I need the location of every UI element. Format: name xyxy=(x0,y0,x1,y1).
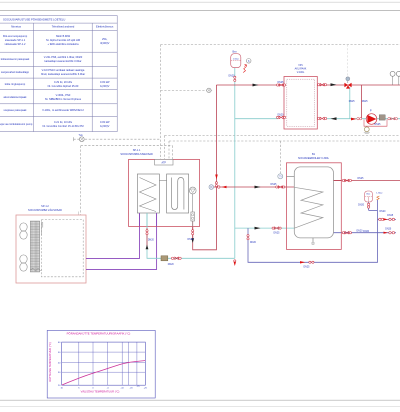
svg-text:3(400)V: 3(400)V xyxy=(100,41,109,45)
svg-text:0.29 l/s; 20 kPa: 0.29 l/s; 20 kPa xyxy=(54,80,72,84)
svg-text:SOOJAVEEBOILER V-300L: SOOJAVEEBOILER V-300L xyxy=(298,157,330,160)
svg-text:Nt. Alpha Fenniks L8 split HM: Nt. Alpha Fenniks L8 split HM xyxy=(46,38,80,42)
svg-text:sooja vee tsirkulatsiooni pump: sooja vee tsirkulatsiooni pump xyxy=(0,122,33,126)
svg-text:kütte ringluspump: kütte ringluspump xyxy=(5,82,26,86)
svg-text:1(230)V: 1(230)V xyxy=(100,124,109,128)
svg-text:kaitseklapi avanemisrõhk 3.0ba: kaitseklapi avanemisrõhk 3.0bar xyxy=(44,59,81,63)
svg-text:Nt. NIBE/BIOm Vemat Orpheus: Nt. NIBE/BIOm Vemat Orpheus xyxy=(45,97,82,101)
svg-text:küttesüsteemi paisupaak: küttesüsteemi paisupaak xyxy=(1,57,30,61)
svg-text:DN20: DN20 xyxy=(385,229,392,231)
svg-text:V-300L, PN3: V-300L, PN3 xyxy=(56,93,71,97)
svg-text:0.03 kW: 0.03 kW xyxy=(100,80,110,84)
svg-text:ATP: ATP xyxy=(162,162,167,165)
svg-text:DN25: DN25 xyxy=(375,124,382,126)
svg-text:akumulatsioonipaak: akumulatsioonipaak xyxy=(4,95,28,99)
svg-text:Bex: Bex xyxy=(233,51,238,54)
svg-text:DN25: DN25 xyxy=(274,233,281,235)
svg-text:-21: -21 xyxy=(136,386,140,388)
svg-text:DN20: DN20 xyxy=(250,242,257,244)
svg-text:60: 60 xyxy=(58,342,61,344)
svg-text:KÜTTEVEE TEMPERATUUR (°C): KÜTTEVEE TEMPERATUUR (°C) xyxy=(48,342,52,381)
svg-text:DN20: DN20 xyxy=(380,211,387,213)
svg-text:TI: TI xyxy=(279,175,281,178)
svg-text:DN20: DN20 xyxy=(188,239,195,241)
svg-text:Tehnilised andmed: Tehnilised andmed xyxy=(52,25,75,29)
svg-text:DN20: DN20 xyxy=(357,230,364,232)
svg-text:-5: -5 xyxy=(107,388,110,390)
svg-text:Bex: Bex xyxy=(367,194,372,196)
svg-text:V-100L: V-100L xyxy=(297,71,305,74)
svg-text:Nimetus: Nimetus xyxy=(11,25,22,29)
svg-text:DN25: DN25 xyxy=(349,101,356,103)
svg-text:B1: B1 xyxy=(312,153,316,156)
svg-text:soojusvaheti kaitseklapp: soojusvaheti kaitseklapp xyxy=(1,70,30,74)
svg-text:V-20L PN6, eelrõhk 1.0bar, DN2: V-20L PN6, eelrõhk 1.0bar, DN20 xyxy=(44,55,83,59)
svg-text:SP-1.1: SP-1.1 xyxy=(133,149,141,152)
svg-text:SOOJUSPUMBA SISEOSAD: SOOJUSPUMBA SISEOSAD xyxy=(120,153,153,156)
svg-text:Elektrivõimsus: Elektrivõimsus xyxy=(96,25,114,29)
svg-text:õhuti, kaitseklapi avanemisrõh: õhuti, kaitseklapi avanemisrõhk 6.0bar xyxy=(41,72,85,76)
svg-text:Nküt=5.9kW: Nküt=5.9kW xyxy=(56,34,71,38)
svg-text:-20: -20 xyxy=(129,388,133,390)
svg-text:DN25: DN25 xyxy=(358,178,365,180)
svg-text:50: 50 xyxy=(58,352,61,354)
svg-text:PÕRANDAKÜTTE TEMPERATUURIGRAAF: PÕRANDAKÜTTE TEMPERATUURIGRAAFIK (°C) xyxy=(67,331,131,336)
svg-text:+ 9kW elektriline küttekeha: + 9kW elektriline küttekeha xyxy=(47,42,79,46)
svg-text:DN15: DN15 xyxy=(387,215,394,217)
svg-text:Nt. Grundfos Alpha2 25-60: Nt. Grundfos Alpha2 25-60 xyxy=(48,84,79,88)
svg-text:DN20: DN20 xyxy=(168,264,175,266)
svg-text:AKU.PAAK: AKU.PAAK xyxy=(295,68,307,71)
svg-text:1(230)V: 1(230)V xyxy=(100,84,109,88)
svg-text:soojavee paisupaak: soojavee paisupaak xyxy=(4,108,28,112)
svg-text:0.21 l/s; 10 kPa: 0.21 l/s; 10 kPa xyxy=(54,120,72,124)
svg-text:SP-1.2: SP-1.2 xyxy=(41,205,49,208)
svg-text:40: 40 xyxy=(58,362,61,364)
svg-text:1.5bar: 1.5bar xyxy=(233,57,239,60)
svg-text:DN25: DN25 xyxy=(271,184,278,186)
svg-text:õhk-vesi soojuspump: õhk-vesi soojuspump xyxy=(3,34,28,38)
svg-text:SOOJUSPUMBA VÄLISOSAD: SOOJUSPUMBA VÄLISOSAD xyxy=(28,209,62,212)
svg-text:Tvä: Tvä xyxy=(79,134,84,137)
svg-text:DN20: DN20 xyxy=(148,240,155,242)
svg-text:1.5bar: 1.5bar xyxy=(376,192,382,195)
svg-text:0: 0 xyxy=(92,388,94,390)
svg-text:0.03 kW: 0.03 kW xyxy=(100,120,110,124)
svg-text:-10: -10 xyxy=(121,388,125,390)
svg-text:DN20: DN20 xyxy=(363,231,370,233)
svg-text:30: 30 xyxy=(58,372,61,374)
svg-text:DN20: DN20 xyxy=(229,76,236,78)
svg-text:DN25: DN25 xyxy=(304,267,311,269)
svg-text:-25: -25 xyxy=(144,388,148,390)
svg-text:VP1: VP1 xyxy=(298,64,303,67)
svg-text:V-100L, nt eelrõhuvede WRS/OE3: V-100L, nt eelrõhuvede WRS/OE3.2 xyxy=(42,108,84,112)
svg-text:DN20: DN20 xyxy=(278,115,285,117)
svg-text:5: 5 xyxy=(78,388,80,390)
svg-text:V-10l PN10 vertikaal radiaat v: V-10l PN10 vertikaal radiaat vaakriga xyxy=(42,68,85,72)
svg-text:VÄLISÕHU TEMPERATUUR (°C): VÄLISÕHU TEMPERATUUR (°C) xyxy=(81,389,120,394)
svg-text:25A,: 25A, xyxy=(102,37,108,41)
svg-text:DN25: DN25 xyxy=(278,82,285,84)
svg-text:10: 10 xyxy=(60,388,63,390)
svg-text:SOOJUSVARUSTUSE PÕHISEADMETE L: SOOJUSVARUSTUSE PÕHISEADMETE LOETELU xyxy=(3,16,65,21)
svg-text:DN20: DN20 xyxy=(358,205,365,207)
svg-text:DN25: DN25 xyxy=(362,101,369,103)
svg-text:P: P xyxy=(370,108,372,112)
svg-text:välisosade SP-1.2: välisosade SP-1.2 xyxy=(5,42,26,46)
svg-text:siseosade SP-1.1: siseosade SP-1.1 xyxy=(5,38,26,42)
svg-text:Nt. Grundfos Comfort 15-14 B/x: Nt. Grundfos Comfort 15-14 B/x PM xyxy=(42,124,83,128)
